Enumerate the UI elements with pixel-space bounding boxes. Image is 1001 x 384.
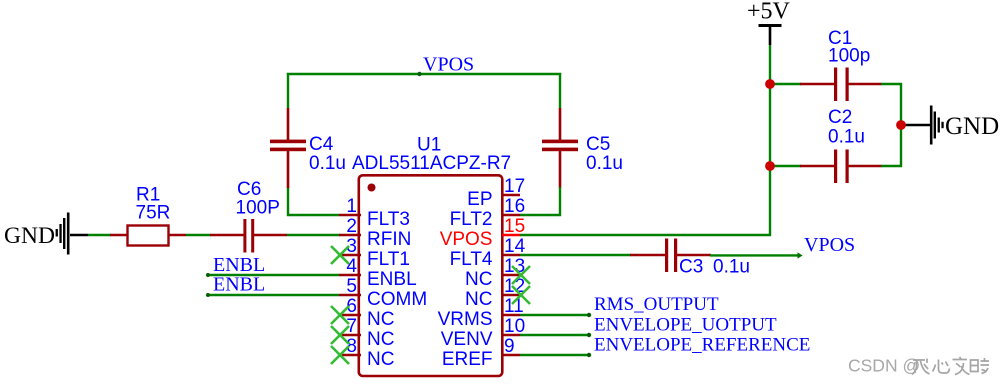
svg-text:0.1u: 0.1u <box>586 153 623 174</box>
svg-text:EREF: EREF <box>442 349 493 370</box>
svg-text:100p: 100p <box>828 46 870 67</box>
wire pin15 VPOS to +5V rail <box>520 234 771 236</box>
net label tick VPOS top <box>417 72 421 76</box>
node dot ENVELOPE_UOTPUT <box>587 333 591 337</box>
svg-text:EP: EP <box>467 189 492 210</box>
wire C2 to right rail <box>881 165 902 167</box>
pin 17 stub <box>502 194 520 197</box>
svg-text:ENVELOPE_UOTPUT: ENVELOPE_UOTPUT <box>594 315 777 336</box>
capacitor C3 <box>630 239 711 273</box>
capacitor C5 <box>542 108 578 188</box>
svg-text:RFIN: RFIN <box>367 229 411 250</box>
svg-text:ENVELOPE_REFERENCE: ENVELOPE_REFERENCE <box>594 335 810 356</box>
capacitor C6 <box>210 219 287 253</box>
wire C1 to right rail <box>881 83 902 85</box>
no-connect X pin 12 <box>512 286 530 304</box>
pin 5 stub <box>339 294 361 297</box>
wire C5 to pin16 FLT2 <box>520 187 560 215</box>
svg-text:VRMS: VRMS <box>438 309 493 330</box>
svg-text:ADL5511ACPZ-R7: ADL5511ACPZ-R7 <box>352 153 511 174</box>
wire right vertical rail <box>900 83 902 167</box>
svg-text:GND: GND <box>945 113 999 140</box>
pin 16 stub <box>502 214 520 217</box>
wire pin14 to C3 <box>520 254 631 256</box>
pin 6 stub <box>339 314 361 317</box>
no-connect X pin 6 <box>331 306 349 324</box>
wire +5V rail down <box>769 45 771 236</box>
svg-text:C4: C4 <box>309 134 334 155</box>
wire C5 up to VPOS rail <box>559 73 561 108</box>
no-connect X pin 7 <box>331 326 349 344</box>
wire pin11 VRMS out <box>520 314 590 316</box>
wire VPOS top rail <box>287 73 561 75</box>
wire C4 up to VPOS rail <box>287 73 289 108</box>
svg-text:VPOS: VPOS <box>423 54 474 76</box>
svg-text:NC: NC <box>465 289 492 310</box>
svg-text:75R: 75R <box>136 203 171 224</box>
svg-text:+5V: +5V <box>747 0 791 25</box>
svg-text:5: 5 <box>346 276 357 297</box>
svg-text:1: 1 <box>346 196 357 217</box>
pin 13 stub <box>502 274 520 277</box>
pin 2 stub <box>339 234 361 237</box>
svg-text:0.1u: 0.1u <box>713 257 750 278</box>
svg-text:2: 2 <box>346 216 357 237</box>
svg-text:NC: NC <box>465 269 492 290</box>
pin 10 stub <box>502 334 520 337</box>
svg-text:ENBL: ENBL <box>367 269 417 290</box>
no-connect X pin 8 <box>331 346 349 364</box>
svg-text:FLT2: FLT2 <box>450 209 493 230</box>
junction dot +5V C2 <box>765 161 775 171</box>
no-connect X pin 13 <box>512 266 530 284</box>
pin 3 stub <box>339 254 361 257</box>
pin 4 stub <box>339 274 361 277</box>
svg-text:16: 16 <box>504 196 525 217</box>
wire +5V to C2 <box>770 165 801 167</box>
wire C3 to VPOS <box>710 254 799 256</box>
svg-text:C2: C2 <box>828 107 852 128</box>
pin 12 stub <box>502 294 520 297</box>
svg-text:RMS_OUTPUT: RMS_OUTPUT <box>594 294 719 315</box>
svg-text:9: 9 <box>504 336 515 357</box>
node dot RMS_OUTPUT <box>587 313 591 317</box>
svg-text:NC: NC <box>367 349 394 370</box>
wire ENBL to pin4 <box>207 274 339 276</box>
node arrow VPOS right <box>798 252 803 258</box>
junction dot right rail GND <box>896 120 906 130</box>
no-connect X pin 3 <box>331 246 349 264</box>
pin 15 stub highlighted <box>502 234 520 237</box>
capacitor C4 <box>270 108 306 188</box>
resistor R1 <box>110 226 186 246</box>
svg-text:0.1u: 0.1u <box>828 127 865 148</box>
svg-text:0.1u: 0.1u <box>309 153 346 174</box>
svg-text:CSDN @: CSDN @ <box>848 356 920 376</box>
wire +5V to C1 <box>770 83 801 85</box>
svg-text:VPOS: VPOS <box>804 234 855 256</box>
svg-text:VENV: VENV <box>441 329 493 350</box>
node dot ENBL pin4 <box>206 273 210 277</box>
wire pin9 EREF out <box>520 354 590 356</box>
wire GND to R1 <box>88 234 111 236</box>
ground symbol left GND <box>4 213 88 255</box>
svg-text:GND: GND <box>4 223 55 249</box>
svg-text:FLT3: FLT3 <box>367 209 410 230</box>
svg-text:FLT4: FLT4 <box>450 249 493 270</box>
svg-text:NC: NC <box>367 309 394 330</box>
IC U1 pin-1 dot <box>368 184 376 192</box>
svg-text:100P: 100P <box>236 198 280 219</box>
svg-text:C5: C5 <box>586 134 610 155</box>
wire ENBL to pin5 COMM <box>207 294 339 296</box>
watermark chinese glyphs <box>912 357 989 375</box>
capacitor C1 <box>800 68 882 102</box>
pin 7 stub <box>339 334 361 337</box>
svg-text:VPOS: VPOS <box>440 229 493 250</box>
svg-text:COMM: COMM <box>367 289 427 310</box>
wire R1 to C6 <box>186 234 211 236</box>
wire node pin1 to C4 <box>288 187 339 215</box>
node dot ENVELOPE_REFERENCE <box>587 353 591 357</box>
svg-text:FLT1: FLT1 <box>367 249 410 270</box>
wire pin10 VENV out <box>520 334 590 336</box>
pin 14 stub <box>502 254 520 257</box>
pin 9 stub <box>502 354 520 357</box>
junction dot +5V C1 <box>765 79 775 89</box>
pin 11 stub <box>502 314 520 317</box>
ground symbol right GND <box>901 106 999 145</box>
node dot ENBL pin5 <box>206 293 210 297</box>
wire C6 to pin2 RFIN <box>287 234 340 236</box>
svg-text:17: 17 <box>504 176 525 197</box>
pin 1 stub <box>339 214 361 217</box>
svg-text:ENBL: ENBL <box>213 274 265 296</box>
svg-text:4: 4 <box>346 256 357 277</box>
svg-text:C3: C3 <box>679 257 703 278</box>
pin 8 stub <box>339 354 361 357</box>
capacitor C2 <box>800 150 882 184</box>
IC U1 body <box>359 175 503 376</box>
svg-text:NC: NC <box>367 329 394 350</box>
power +5V symbol <box>747 0 791 45</box>
